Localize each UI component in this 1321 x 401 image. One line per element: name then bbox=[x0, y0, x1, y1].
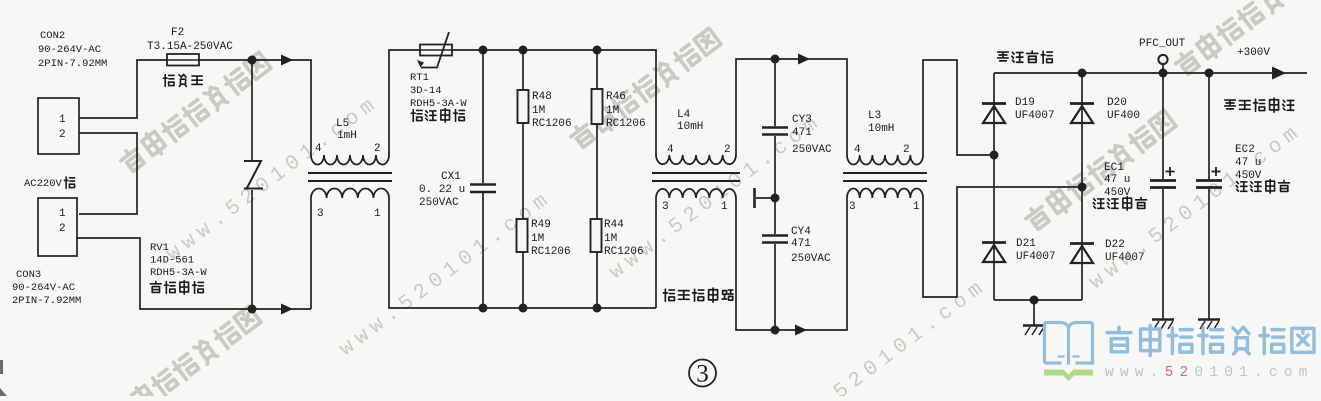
wire L5 pin3 down bbox=[310, 198, 312, 309]
label to main/aux power bbox=[1225, 98, 1294, 112]
capacitor CY3 bbox=[762, 59, 832, 198]
svg-text:CON2: CON2 bbox=[40, 30, 65, 42]
wire bridge bottom rail bbox=[994, 299, 1082, 301]
wire CON2 pin1 to fuse bbox=[79, 60, 167, 118]
junction node EC1 top bbox=[1159, 69, 1168, 78]
svg-text:L4: L4 bbox=[677, 109, 691, 121]
wire bridge left branch bbox=[993, 73, 995, 300]
diode D22 bbox=[1070, 239, 1145, 264]
svg-text:1: 1 bbox=[721, 201, 728, 213]
svg-text:3: 3 bbox=[849, 201, 856, 213]
diode D21 bbox=[982, 238, 1056, 263]
common-mode choke L5 bbox=[308, 118, 392, 220]
svg-text:1M: 1M bbox=[532, 105, 545, 117]
svg-text:AC220V: AC220V bbox=[24, 178, 63, 190]
svg-text:250VAC: 250VAC bbox=[791, 253, 831, 265]
svg-text:RT1: RT1 bbox=[410, 72, 429, 84]
svg-text:2: 2 bbox=[724, 144, 731, 156]
arrow +300V output bbox=[1272, 67, 1286, 80]
wire L5 pin2 up to RT1 rail bbox=[389, 50, 420, 155]
wire CON2 pin2 to CON3 pin1 bbox=[79, 133, 137, 214]
svg-text:471: 471 bbox=[791, 238, 811, 250]
svg-text:4: 4 bbox=[667, 144, 674, 156]
svg-text:EC2: EC2 bbox=[1235, 144, 1255, 156]
svg-text:L3: L3 bbox=[868, 110, 881, 122]
connector CON3 bbox=[12, 198, 81, 307]
svg-text:D22: D22 bbox=[1105, 239, 1125, 251]
svg-text:0. 22 u: 0. 22 u bbox=[419, 184, 465, 196]
resistor R49 bbox=[517, 219, 571, 308]
electrolytic capacitor EC2 bbox=[1196, 73, 1289, 319]
svg-text:PFC_OUT: PFC_OUT bbox=[1139, 38, 1186, 50]
svg-text:R46: R46 bbox=[606, 91, 626, 103]
wire L5 pin1 down to bottom rail bbox=[389, 198, 656, 308]
svg-text:450V: 450V bbox=[1235, 170, 1262, 182]
common-mode choke L3 bbox=[843, 110, 927, 213]
svg-text:1M: 1M bbox=[531, 233, 544, 245]
ground chassis below EC1 bbox=[1152, 320, 1174, 330]
svg-text:47 u: 47 u bbox=[1235, 157, 1261, 169]
svg-text:UF4007: UF4007 bbox=[1016, 251, 1056, 263]
svg-text:2PIN-7.92MM: 2PIN-7.92MM bbox=[38, 58, 107, 70]
wire bridge right branch bbox=[1081, 73, 1083, 300]
svg-text:47 u: 47 u bbox=[1104, 174, 1130, 186]
svg-text:4: 4 bbox=[854, 144, 861, 156]
junction node CX1 bottom bbox=[479, 304, 488, 313]
capacitor CY4 bbox=[762, 198, 831, 330]
svg-text:3: 3 bbox=[696, 361, 709, 388]
svg-text:CON3: CON3 bbox=[16, 269, 41, 281]
ground chassis below bridge bbox=[1023, 300, 1045, 335]
varistor RV1 bbox=[150, 60, 263, 309]
wire L4 pin1 down to CY4 rail bbox=[736, 198, 847, 330]
svg-text:4: 4 bbox=[315, 143, 322, 155]
svg-text:3: 3 bbox=[662, 201, 669, 213]
junction node R48 top bbox=[519, 46, 528, 55]
svg-text:UF4007: UF4007 bbox=[1015, 110, 1055, 122]
capacitor CX1 bbox=[419, 50, 496, 308]
svg-text:RC1206: RC1206 bbox=[606, 118, 646, 130]
svg-text:10mH: 10mH bbox=[868, 123, 894, 135]
diode D19 bbox=[982, 97, 1055, 123]
junction node CX1 top bbox=[479, 46, 488, 55]
svg-text:L5: L5 bbox=[336, 118, 349, 130]
svg-text:T3.15A-250VAC: T3.15A-250VAC bbox=[147, 41, 233, 53]
svg-text:3: 3 bbox=[317, 208, 324, 220]
svg-text:CY3: CY3 bbox=[792, 114, 812, 126]
svg-text:1: 1 bbox=[59, 208, 66, 220]
svg-text:90-264V-AC: 90-264V-AC bbox=[12, 282, 75, 294]
wire RT1 to L4 pin4 rail bbox=[452, 50, 656, 155]
arrow on bottom AC line bbox=[281, 304, 293, 315]
svg-text:R44: R44 bbox=[604, 219, 624, 231]
junction node RV1 bottom bbox=[248, 305, 257, 314]
wire L4 pin2 up to CY3 rail bbox=[736, 59, 847, 155]
svg-text:D20: D20 bbox=[1107, 97, 1127, 109]
svg-text:3D-14: 3D-14 bbox=[410, 85, 442, 97]
resistor R48 bbox=[518, 50, 572, 219]
terminal PFC_OUT bbox=[1139, 38, 1186, 73]
svg-text:2: 2 bbox=[59, 129, 66, 141]
svg-text:10mH: 10mH bbox=[677, 121, 703, 133]
svg-text:2: 2 bbox=[903, 144, 910, 156]
thermistor RT1 bbox=[410, 32, 467, 122]
junction node CY3/CY4 midpoint bbox=[771, 194, 780, 203]
junction node bridge left AC bbox=[990, 151, 999, 160]
chassis stub at CY mid node bbox=[756, 197, 775, 199]
svg-text:90-264V-AC: 90-264V-AC bbox=[38, 44, 101, 56]
arrow on CY4 rail bbox=[795, 325, 807, 336]
svg-text:RDH5-3A-W: RDH5-3A-W bbox=[150, 267, 207, 279]
svg-text:14D-561: 14D-561 bbox=[150, 255, 194, 267]
diode D20 bbox=[1070, 97, 1140, 123]
svg-text:R48: R48 bbox=[532, 91, 552, 103]
connector CON2 bbox=[38, 30, 107, 154]
svg-text:RC1206: RC1206 bbox=[604, 246, 644, 258]
svg-text:UF4007: UF4007 bbox=[1105, 252, 1145, 264]
logo open book bbox=[1044, 323, 1093, 382]
svg-text:250VAC: 250VAC bbox=[792, 144, 832, 156]
junction node CY4 bottom bbox=[771, 326, 780, 335]
junction node EC2 top bbox=[1205, 69, 1214, 78]
svg-text:1: 1 bbox=[374, 208, 381, 220]
wire CON3 pin2 to bottom rail bbox=[77, 238, 311, 309]
ground chassis below EC2 bbox=[1198, 320, 1220, 330]
svg-text:RC1206: RC1206 bbox=[532, 118, 572, 130]
figure number 3 circled bbox=[689, 360, 716, 388]
wire output top rail bbox=[994, 72, 1307, 74]
electrolytic capacitor EC1 bbox=[1093, 73, 1176, 319]
svg-text:2: 2 bbox=[374, 143, 381, 155]
junction node CY3 top bbox=[771, 55, 780, 64]
svg-text:1M: 1M bbox=[604, 233, 617, 245]
label EMI filter circuit bbox=[663, 288, 733, 302]
svg-text:UF400: UF400 bbox=[1107, 110, 1140, 122]
wire bottom rail to L4 pin3 bbox=[655, 198, 657, 308]
junction node fuse/RV1 top bbox=[248, 56, 257, 65]
svg-text:1: 1 bbox=[913, 201, 920, 213]
svg-text:1mH: 1mH bbox=[337, 130, 357, 142]
svg-text:RC1206: RC1206 bbox=[531, 246, 571, 258]
junction node R44 bottom bbox=[593, 304, 602, 313]
wire L3 pin2 to bridge left AC node bbox=[923, 60, 994, 155]
svg-text:+300V: +300V bbox=[1237, 47, 1270, 59]
junction node R49 bottom bbox=[519, 304, 528, 313]
svg-text:F2: F2 bbox=[171, 27, 184, 39]
svg-text:1: 1 bbox=[59, 114, 66, 126]
svg-text:1M: 1M bbox=[606, 105, 619, 117]
arrow on top AC line bbox=[281, 55, 293, 66]
svg-text:www.520101.com: www.520101.com bbox=[1105, 365, 1314, 381]
svg-text:2PIN-7.92MM: 2PIN-7.92MM bbox=[12, 295, 81, 307]
fuse F2 bbox=[147, 27, 233, 86]
label +300V bbox=[1237, 47, 1270, 59]
site url bbox=[1105, 365, 1314, 381]
common-mode choke L4 bbox=[652, 109, 740, 213]
svg-text:CX1: CX1 bbox=[441, 171, 461, 183]
svg-text:RDH5-3A-W: RDH5-3A-W bbox=[410, 98, 467, 110]
wire fuse to L5 pin4 bbox=[199, 60, 311, 155]
svg-text:250VAC: 250VAC bbox=[419, 197, 459, 209]
scan artifact bottom-left corner bbox=[0, 360, 7, 396]
svg-text:471: 471 bbox=[792, 127, 812, 139]
svg-text:D21: D21 bbox=[1016, 238, 1036, 250]
site name watermark big blue bbox=[1107, 325, 1314, 355]
wire L3 pin1 to bridge right AC node bbox=[923, 187, 1082, 297]
svg-text:R49: R49 bbox=[531, 219, 551, 231]
label rectifier bridge bbox=[998, 51, 1053, 63]
junction node bridge right AC bbox=[1078, 183, 1087, 192]
junction node bridge + rail bbox=[1078, 69, 1087, 78]
resistor R46 bbox=[592, 50, 646, 219]
svg-text:RV1: RV1 bbox=[150, 242, 169, 254]
label AC220V input bbox=[24, 177, 75, 190]
svg-text:EC1: EC1 bbox=[1104, 162, 1124, 174]
arrow on CY3 rail bbox=[798, 54, 810, 65]
svg-text:D19: D19 bbox=[1015, 97, 1035, 109]
svg-text:2: 2 bbox=[59, 223, 66, 235]
junction node bridge bottom center bbox=[1030, 296, 1039, 305]
resistor R44 bbox=[591, 219, 644, 308]
junction node R46 top bbox=[593, 46, 602, 55]
svg-text:CY4: CY4 bbox=[791, 226, 811, 238]
